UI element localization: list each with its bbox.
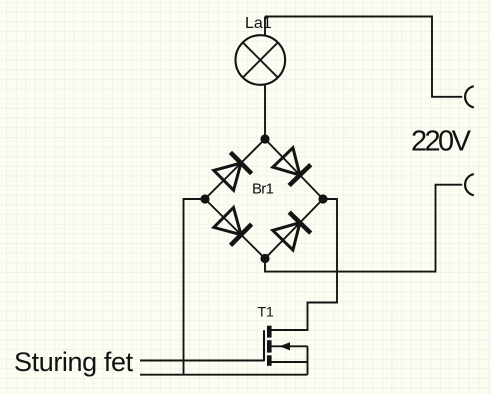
plug P2 (220V neutral) xyxy=(465,174,474,195)
wire bridge DC- (left node) down to source rail xyxy=(184,199,206,375)
svg-text:Br1: Br1 xyxy=(252,180,274,197)
node right (DC+) xyxy=(318,194,327,203)
channel segment body xyxy=(267,340,272,352)
diode D1 (bridge top-left, L to T) xyxy=(214,152,252,190)
transistor T1 (N-MOSFET) xyxy=(264,326,308,366)
wire gate control xyxy=(140,360,264,362)
gate plate xyxy=(263,330,265,361)
plug P1 (220V live) xyxy=(465,86,474,107)
diode D3 (bridge bottom-left, L to B) xyxy=(214,208,252,246)
lamp La1 xyxy=(235,35,285,85)
source lead xyxy=(272,361,308,363)
node top (AC1) xyxy=(260,134,269,143)
svg-text:T1: T1 xyxy=(258,304,275,320)
svg-text:220V: 220V xyxy=(411,126,472,158)
wire lamp bottom lead to bridge AC1 (top node) xyxy=(264,85,266,139)
channel segment source xyxy=(267,355,272,366)
wire bridge side bottom-right xyxy=(265,199,323,259)
body arrow lead xyxy=(272,345,308,347)
wire lamp top lead xyxy=(264,17,266,37)
wire source rail xyxy=(140,374,308,376)
svg-text:La1: La1 xyxy=(245,15,272,32)
wire body+source tie down to source rail xyxy=(307,346,309,374)
body arrowhead xyxy=(280,342,291,350)
wire bridge side top-right xyxy=(265,139,323,199)
svg-text:Sturing fet: Sturing fet xyxy=(14,347,134,377)
node bottom (AC2) xyxy=(260,254,269,263)
wire top to plug 1 xyxy=(265,17,462,97)
wire bridge side left-bottom xyxy=(205,199,265,259)
channel segment drain xyxy=(267,326,272,338)
node left (DC-) xyxy=(200,194,209,203)
diode D4 (bridge bottom-right, B to R) xyxy=(273,212,311,250)
wire plug 2 to bridge AC2 (bottom node) xyxy=(265,185,462,272)
diode D2 (bridge top-right, T to R) xyxy=(273,148,311,186)
wire bridge side left-top xyxy=(205,139,265,199)
wire bridge DC+ (right node) to drain xyxy=(272,199,338,330)
